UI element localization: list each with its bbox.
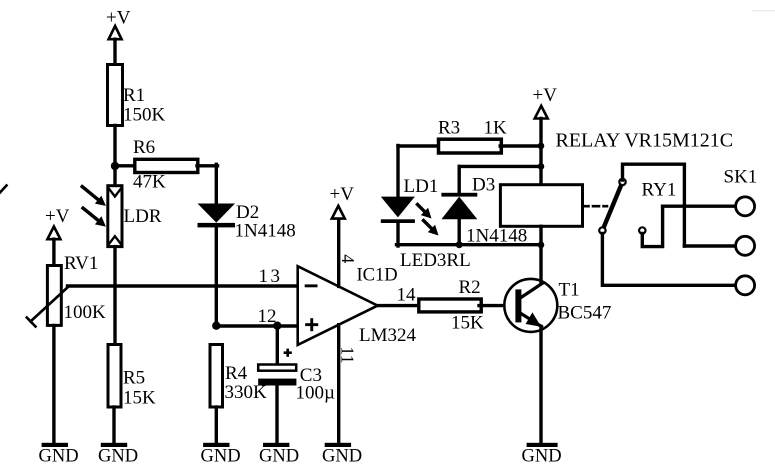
svg-text:1N4148: 1N4148 bbox=[235, 221, 296, 242]
svg-text:150K: 150K bbox=[123, 105, 166, 126]
svg-text:4: 4 bbox=[338, 254, 358, 263]
svg-text:47K: 47K bbox=[133, 172, 166, 193]
svg-text:T1: T1 bbox=[559, 280, 580, 301]
svg-text:R6: R6 bbox=[133, 137, 155, 158]
svg-text:RELAY VR15M121C: RELAY VR15M121C bbox=[556, 130, 734, 152]
svg-text:R2: R2 bbox=[459, 277, 481, 298]
svg-text:12: 12 bbox=[258, 306, 277, 327]
svg-text:100µ: 100µ bbox=[296, 383, 336, 404]
svg-text:LDR: LDR bbox=[124, 206, 162, 227]
svg-text:+V: +V bbox=[106, 8, 131, 29]
svg-text:+V: +V bbox=[45, 206, 70, 227]
svg-text:RY1: RY1 bbox=[642, 180, 677, 201]
svg-text:14: 14 bbox=[397, 285, 417, 306]
svg-text:13: 13 bbox=[259, 266, 283, 287]
svg-text:RV1: RV1 bbox=[64, 253, 98, 274]
svg-text:1K: 1K bbox=[484, 118, 508, 139]
svg-text:R4: R4 bbox=[225, 363, 248, 384]
svg-text:LD1: LD1 bbox=[404, 176, 439, 197]
svg-text:15K: 15K bbox=[451, 313, 484, 334]
svg-text:SK1: SK1 bbox=[724, 167, 758, 188]
svg-text:GND: GND bbox=[98, 447, 138, 467]
svg-text:LM324: LM324 bbox=[359, 325, 417, 346]
svg-text:GND: GND bbox=[259, 447, 299, 467]
svg-text:GND: GND bbox=[522, 447, 562, 467]
svg-text:D3: D3 bbox=[472, 175, 495, 196]
svg-text:IC1D: IC1D bbox=[357, 266, 398, 286]
svg-text:GND: GND bbox=[201, 447, 241, 467]
svg-text:+V: +V bbox=[533, 85, 558, 106]
svg-text:GND: GND bbox=[322, 447, 362, 467]
svg-text:R5: R5 bbox=[123, 368, 145, 389]
svg-text:LED3RL: LED3RL bbox=[400, 250, 471, 271]
svg-text:11: 11 bbox=[338, 346, 358, 363]
svg-text:R3: R3 bbox=[438, 118, 460, 139]
svg-text:BC547: BC547 bbox=[558, 303, 612, 324]
svg-text:+V: +V bbox=[330, 184, 355, 205]
svg-text:R1: R1 bbox=[123, 85, 145, 106]
svg-text:100K: 100K bbox=[64, 302, 107, 323]
svg-text:15K: 15K bbox=[123, 388, 156, 409]
svg-text:GND: GND bbox=[39, 447, 79, 467]
